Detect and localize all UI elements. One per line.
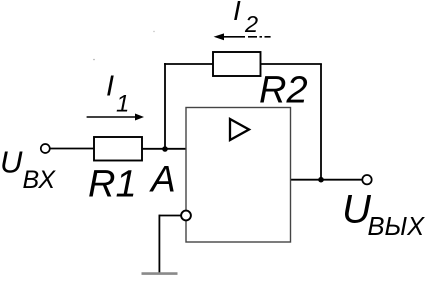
wire feedback right vertical down to output (320, 64, 322, 180)
svg-text:A: A (149, 159, 176, 200)
resistor R1 (94, 137, 142, 161)
stray speck (93, 59, 95, 61)
wire output from op-amp to terminal (291, 179, 363, 181)
wire R1 to node A to op-amp input (142, 148, 186, 150)
svg-text:U: U (0, 145, 23, 180)
wire top feedback horizontal (164, 63, 322, 65)
svg-text:ВХ: ВХ (23, 166, 57, 194)
svg-text:R2: R2 (259, 70, 308, 112)
input terminal (41, 144, 50, 153)
op-amp triangle symbol (230, 119, 249, 140)
output terminal (362, 175, 371, 184)
svg-text:I: I (106, 71, 114, 103)
output junction dot (318, 177, 324, 183)
current I2 arrow (dash-dot) (224, 36, 271, 38)
stray speck (153, 31, 154, 32)
op-amp lower input circle (181, 211, 191, 221)
svg-text:2: 2 (244, 11, 258, 37)
wire node A up to feedback branch (164, 63, 166, 149)
op-amp U1 (186, 108, 291, 243)
wire ground vertical (158, 215, 160, 273)
wire input Uвх to R1 (50, 148, 94, 150)
svg-text:ВЫХ: ВЫХ (368, 213, 426, 241)
ground (142, 272, 178, 275)
svg-text:I: I (233, 0, 241, 26)
node A junction dot (162, 146, 168, 152)
svg-text:1: 1 (116, 91, 129, 118)
wire non-inverting input to ground horizontal (159, 215, 181, 217)
current I1 arrow (87, 116, 136, 118)
resistor R2 (213, 52, 261, 76)
svg-text:R1: R1 (88, 164, 137, 206)
